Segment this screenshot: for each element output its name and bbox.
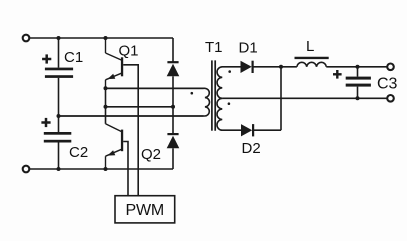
secondary lower polarity dot — [228, 102, 231, 105]
wire midpoint rail to primary top — [106, 87, 204, 89]
node C2 bottom junction — [57, 167, 61, 171]
node Q2 emitter junction — [104, 167, 108, 171]
node C3 bottom — [356, 96, 360, 100]
primary polarity dot — [191, 92, 194, 95]
wire bottom rail — [30, 168, 173, 170]
node C1 top junction — [57, 36, 61, 40]
freewheel diode across Q1 — [167, 61, 180, 76]
diode D2 — [241, 124, 254, 136]
node C3 top — [356, 65, 360, 69]
wire top rail — [30, 37, 173, 39]
svg-text:D2: D2 — [242, 140, 261, 157]
svg-text:C1: C1 — [64, 49, 83, 66]
secondary upper polarity dot — [228, 70, 231, 73]
node Q1 emitter / midpoint — [104, 86, 108, 90]
node diode chain midpoint — [171, 105, 175, 109]
node Q1 collector junction — [104, 36, 108, 40]
wire midpoint vertical — [105, 88, 107, 124]
capacitor C2 — [44, 132, 72, 143]
svg-text:Q2: Q2 — [141, 146, 161, 163]
wire D2 cathode to junction — [254, 129, 281, 131]
svg-text:C3: C3 — [377, 76, 398, 93]
wire diode chain vertical middle — [172, 76, 174, 133]
wire D1 cathode to junction — [254, 66, 297, 68]
wire center tap to output return — [222, 97, 387, 99]
inductor L — [297, 62, 326, 66]
wire C1 to C2 — [58, 78, 60, 132]
svg-text:T1: T1 — [205, 39, 223, 56]
wire Q2 base lead — [123, 142, 128, 196]
wire capacitor branch upper — [58, 38, 60, 68]
PWM controller box — [115, 196, 175, 223]
wire capacitor midpoint rail to primary bottom — [59, 115, 204, 117]
wire C3 bottom stub — [357, 87, 359, 99]
wire C2 to bottom rail — [58, 143, 60, 170]
wire L to output — [326, 66, 387, 68]
transformer T1 secondary lower winding — [217, 98, 241, 130]
transistor Q1 — [106, 38, 124, 88]
node Q2 collector rail left — [104, 105, 108, 109]
wire Q1 base lead — [123, 65, 138, 196]
input terminal top-left — [23, 35, 30, 42]
transformer core — [212, 60, 215, 130]
diode D1 — [241, 61, 254, 73]
wire rectifier junction vertical — [280, 67, 282, 130]
svg-text:D1: D1 — [239, 40, 258, 57]
inductor core bar — [295, 57, 329, 59]
input terminal bottom-left — [23, 166, 30, 173]
svg-text:C2: C2 — [69, 144, 88, 161]
transformer T1 primary winding — [59, 88, 210, 116]
svg-text:L: L — [306, 38, 314, 55]
output terminal bottom-right — [387, 95, 394, 102]
wire diode chain vertical bottom — [172, 148, 174, 169]
freewheel diode across Q2 — [167, 133, 180, 148]
label plus C1 — [42, 54, 51, 63]
wire diode chain vertical top — [172, 38, 174, 62]
wire C3 top stub — [357, 67, 359, 77]
output terminal top-right — [387, 64, 394, 71]
wire Q2 collector rail — [106, 106, 174, 108]
svg-text:PWM: PWM — [126, 202, 165, 219]
transistor Q2 — [106, 124, 124, 169]
capacitor C3 — [346, 77, 371, 87]
node capacitor midpoint — [57, 114, 61, 118]
label plus C2 — [41, 118, 50, 127]
node rectifier output junction — [279, 65, 283, 69]
transformer T1 secondary upper winding — [217, 67, 240, 99]
svg-text:Q1: Q1 — [119, 43, 139, 60]
capacitor C1 — [45, 68, 73, 78]
label plus C3 — [333, 70, 342, 79]
